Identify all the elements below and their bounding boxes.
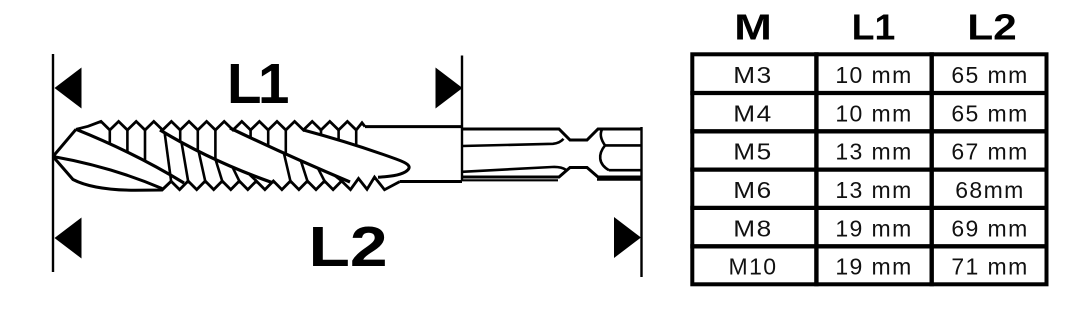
hex shank outline with groove (462, 129, 642, 177)
shank facet line lower right segment (609, 169, 642, 172)
svg-text:13 mm: 13 mm (835, 139, 912, 165)
svg-text:L2: L2 (308, 216, 387, 278)
left extension line (52, 54, 54, 272)
table row line 1 (690, 91, 1048, 95)
drill flute line from tip (53, 157, 162, 189)
thread columns field2 (180, 130, 215, 160)
svg-text:10 mm: 10 mm (835, 62, 912, 88)
neck top edge (365, 125, 462, 128)
shank bottom sliver line (462, 179, 642, 182)
L1 right extension line (461, 56, 463, 182)
table row line 5 (690, 244, 1048, 248)
shank facet line upper left segment (462, 139, 564, 146)
svg-text:68mm: 68mm (955, 177, 1025, 203)
table row line 2 (690, 129, 1048, 133)
svg-text:M4: M4 (733, 102, 773, 127)
svg-text:71 mm: 71 mm (951, 254, 1028, 280)
table outer border (692, 54, 1046, 284)
table row line 4 (690, 206, 1048, 210)
table column divider 1 (814, 52, 818, 286)
top zigzag thread crest (76, 121, 365, 130)
L2 right extension line (640, 127, 642, 277)
svg-text:L2: L2 (967, 7, 1017, 47)
L1 dimension right arrow (436, 68, 463, 109)
shank facet line upper right segment (605, 144, 642, 147)
svg-text:L1: L1 (227, 52, 288, 115)
thread columns below S3 (284, 153, 342, 181)
shank facet arcs right of groove (600, 130, 609, 171)
svg-text:69 mm: 69 mm (951, 215, 1028, 241)
svg-text:M6: M6 (733, 178, 773, 203)
svg-text:19 mm: 19 mm (835, 215, 912, 241)
L2 dimension left arrow (55, 218, 82, 259)
thread columns field3 (251, 130, 286, 154)
table grid (690, 52, 1048, 286)
thread columns below S2 (165, 133, 257, 182)
spiral flute curve S3 (230, 128, 350, 182)
svg-text:65 mm: 65 mm (951, 62, 1028, 88)
svg-text:M: M (734, 7, 772, 47)
svg-text:67 mm: 67 mm (951, 139, 1028, 165)
spiral flute curve S1 (76, 129, 184, 183)
svg-text:M5: M5 (733, 140, 773, 165)
bottom zigzag thread crest (171, 177, 399, 190)
thread columns field1 (110, 130, 145, 161)
table header text (734, 7, 1017, 48)
svg-text:M8: M8 (733, 217, 773, 242)
svg-text:10 mm: 10 mm (835, 100, 912, 126)
drill point lower edge + bottom curve (53, 157, 171, 191)
svg-text:M10: M10 (729, 254, 778, 280)
table row line 3 (690, 167, 1048, 171)
svg-text:L1: L1 (852, 7, 896, 47)
thread columns field4 above lobe (321, 130, 356, 145)
neck bottom edge (400, 180, 463, 183)
spiral flute lobe upper edge + rounded cap (303, 130, 409, 177)
svg-text:19 mm: 19 mm (835, 254, 912, 280)
table column divider 2 (930, 52, 934, 286)
spiral flute curve S2 (160, 130, 272, 183)
shank facet line lower left segment (462, 167, 566, 172)
L1 dimension left arrow (55, 68, 82, 109)
table cell text (729, 62, 1029, 280)
svg-text:M3: M3 (733, 63, 773, 88)
svg-text:13 mm: 13 mm (835, 177, 912, 203)
svg-text:65 mm: 65 mm (951, 100, 1028, 126)
drill point upper edge (53, 129, 76, 156)
L2 dimension right arrow (614, 217, 641, 258)
